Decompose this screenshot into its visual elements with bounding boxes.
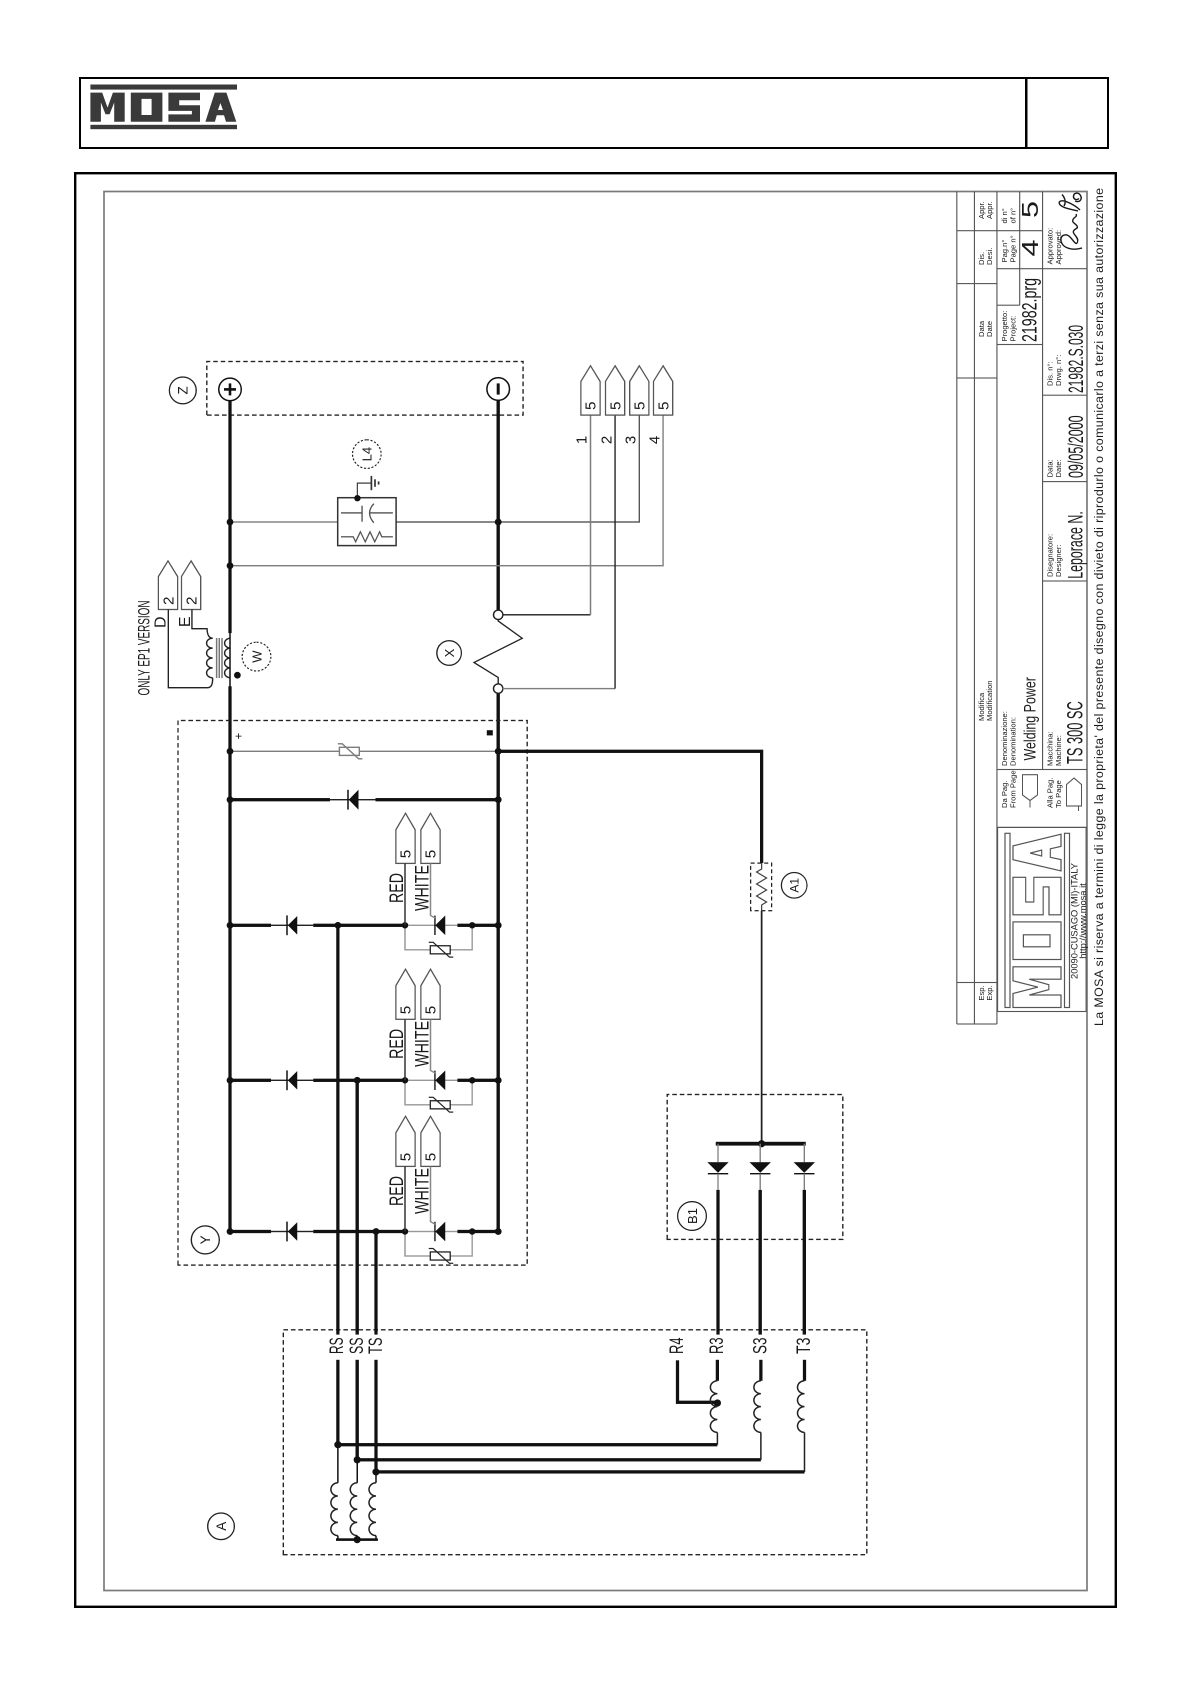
L4 filter vertical wire upper (230, 521, 338, 523)
svg-text:WHITE: WHITE (412, 865, 433, 911)
svg-text:T3: T3 (794, 1338, 815, 1355)
rectifier B1 dashed box (667, 1095, 843, 1240)
svg-text:RS: RS (327, 1338, 348, 1355)
label circle A1 (781, 873, 807, 899)
svg-text:A1: A1 (787, 878, 801, 893)
B1 common bar (715, 1142, 805, 1146)
svg-text:3: 3 (622, 436, 639, 444)
junction dot on - bus at L4 (494, 519, 501, 526)
svg-text:Exp.: Exp. (985, 985, 994, 1000)
svg-text:5: 5 (397, 1153, 414, 1161)
wire T3 from B1 (802, 1190, 805, 1335)
diode (cathode up) (286, 1222, 288, 1242)
svg-text:1: 1 (573, 436, 590, 444)
polarity dot (234, 672, 241, 679)
svg-text:5: 5 (607, 402, 624, 410)
svg-text:Macchina:: Macchina: (1045, 731, 1054, 766)
Approvato cell (1045, 228, 1062, 265)
svg-text:5: 5 (397, 850, 414, 858)
svg-text:R4: R4 (667, 1337, 688, 1354)
svg-text:Desi.: Desi. (985, 248, 994, 265)
svg-text:Approved:: Approved: (1054, 230, 1063, 265)
svg-text:Page n°: Page n° (1008, 235, 1017, 262)
wire D to transformer primary left end (168, 610, 212, 688)
svg-text:La MOSA si riserva a termini d: La MOSA si riserva a termini di legge la… (1092, 188, 1106, 1026)
signature (1059, 193, 1082, 249)
L4 filter vertical wire lower (to flag 3 corner) (396, 415, 639, 522)
diode (cathode up) (286, 915, 288, 935)
label circle A (207, 1513, 234, 1540)
MOSA logo cell (997, 827, 1086, 1011)
svg-text:Progetto:: Progetto: (1000, 311, 1009, 342)
flag 3 (to page 5) (629, 366, 648, 415)
wire X top to flag 1 (502, 614, 590, 616)
terminal + (positive output) (218, 378, 241, 401)
svg-text:Dis.: Dis. (976, 252, 985, 265)
svg-text:Project:: Project: (1008, 316, 1017, 342)
svg-text:Alla Pag.: Alla Pag. (1045, 778, 1054, 808)
wire: + bus thick (from + terminal to transformer) (228, 401, 231, 634)
wire SS from row B (355, 1080, 358, 1334)
svg-text:5: 5 (422, 1153, 439, 1161)
title block cell lines (996, 192, 1086, 828)
label circle W (242, 642, 271, 671)
MOSA logo (filled) (90, 85, 237, 130)
wire A1 to B1 bar (760, 911, 762, 1144)
field winding TS (375, 1472, 377, 1483)
wire to ground from L4 box (357, 483, 371, 498)
wire: + bus thin segment through transformer secondary (229, 631, 231, 688)
stator winding S3 (753, 1381, 760, 1433)
svg-text:Appr.: Appr. (985, 201, 994, 219)
field winding RS (336, 1445, 338, 1483)
wire WHITE gate (430, 1166, 435, 1224)
SCR (433, 1071, 435, 1090)
svg-text:Welding Power: Welding Power (1020, 677, 1039, 761)
SCR (433, 916, 435, 935)
filter L4 box (337, 498, 395, 546)
Da Pag cell (1000, 770, 1063, 808)
phase branch line x=376.5 (230, 1230, 271, 1233)
flag WHITE (to page 5) (420, 969, 439, 1019)
phase branch line x=527.7 (230, 1079, 271, 1082)
svg-text:B1: B1 (684, 1208, 699, 1224)
svg-text:Machine:: Machine: (1054, 735, 1063, 766)
Data cell (1045, 459, 1062, 477)
from-page flag (1022, 775, 1037, 808)
svg-text:21982.prg: 21982.prg (1018, 278, 1041, 342)
wire WHITE gate (430, 863, 435, 918)
generator A dashed box (283, 1330, 867, 1555)
junction dot row A takeoff (334, 922, 341, 929)
wire: W sense line (from + bus down to flag 4) (230, 415, 663, 566)
svg-text:4: 4 (646, 436, 663, 444)
label circle L4 (352, 440, 381, 469)
wire SS down to S3 coil (357, 1458, 761, 1461)
wire RS from row A (336, 925, 339, 1334)
svg-text:E: E (177, 617, 194, 628)
outer frame (75, 173, 1116, 1607)
junction dot on + bus at L4 (226, 519, 233, 526)
stator winding T3 (797, 1381, 804, 1433)
svg-text:4: 4 (1017, 239, 1043, 256)
label circle X (436, 641, 461, 666)
svg-text:Disegnatore:: Disegnatore: (1045, 534, 1054, 577)
stator winding R3 (710, 1381, 717, 1433)
phase branch line x=682.7 (230, 924, 271, 927)
svg-text:WHITE: WHITE (412, 1021, 433, 1067)
transformer core (216, 638, 221, 678)
svg-text:2: 2 (598, 436, 615, 444)
svg-text:From Page: From Page (1008, 770, 1017, 808)
svg-text:Modifica: Modifica (976, 692, 985, 721)
svg-text:Modification: Modification (985, 680, 994, 721)
Disegnatore cell (1045, 534, 1062, 577)
svg-text:Leporace N.: Leporace N. (1064, 511, 1087, 579)
svg-text:5: 5 (397, 1006, 414, 1014)
svg-text:Approvato:: Approvato: (1045, 228, 1054, 265)
flag RED (to page 5) (395, 969, 414, 1019)
revision table lines (956, 192, 1042, 1025)
svg-text:To Page: To Page (1054, 780, 1063, 808)
flag WHITE (to page 5) (420, 813, 439, 863)
resistor inside L4 (vertical zigzag) (341, 532, 393, 542)
diode (cathode up) (286, 1070, 288, 1090)
svg-text:Appr.: Appr. (976, 201, 985, 219)
svg-text:WHITE: WHITE (412, 1168, 433, 1214)
wire S3 from B1 (758, 1190, 761, 1335)
node Z terminal group dashed box (206, 362, 522, 416)
wire WHITE gate (430, 1019, 435, 1073)
Denominazione cell (1000, 711, 1063, 766)
flag WHITE (to page 5) (420, 1116, 439, 1166)
Pag / di cells (1000, 208, 1017, 263)
varistor symbol (337, 744, 362, 759)
svg-text:Esp.: Esp. (976, 985, 985, 1000)
snubber (405, 925, 430, 950)
svg-text:+: + (233, 733, 245, 740)
label circle Z (169, 377, 196, 404)
star point bar (336, 1538, 378, 1541)
B1 diode 3 (793, 1144, 814, 1190)
wire E to transformer primary right end (191, 610, 212, 639)
capacitor inside L4 (341, 504, 393, 523)
svg-text:Drwg. n°:: Drwg. n°: (1054, 355, 1063, 386)
snubber (405, 1232, 430, 1257)
svg-text:R3: R3 (706, 1338, 727, 1355)
svg-text:L4: L4 (359, 447, 374, 461)
header band with MOSA logo (79, 77, 1109, 149)
svg-text:Pag.n°: Pag.n° (1000, 240, 1009, 263)
SCR (433, 1222, 435, 1241)
svg-text:TS: TS (365, 1338, 386, 1355)
wire: + bus thick (transformer to Y row C) (228, 686, 231, 1231)
svg-text:Da Pag.: Da Pag. (1000, 781, 1009, 808)
svg-text:Denominazione:: Denominazione: (1000, 711, 1009, 766)
flag D (to page 2) (158, 561, 177, 610)
svg-text:SS: SS (347, 1338, 368, 1355)
rectifier bridge Y dashed box (178, 721, 527, 1266)
svg-text:09/05/2000: 09/05/2000 (1064, 415, 1087, 478)
svg-text:of n°: of n° (1008, 208, 1017, 224)
transformer W primary winding (206, 638, 212, 678)
wire: - bus thick (X bottom circle to Y row C) (496, 693, 499, 1231)
svg-text:5: 5 (422, 850, 439, 858)
Dis. n cell (1045, 355, 1062, 386)
flag E (to page 2) (181, 561, 200, 610)
svg-text:Designer:: Designer: (1054, 545, 1063, 578)
rotated landscape drawing (74, 172, 1117, 1608)
svg-text:Dis. n°:: Dis. n°: (1045, 361, 1054, 386)
wire TS down to T3 coil (376, 1470, 805, 1473)
resistor A1 dashed box (750, 863, 771, 911)
wire: - bus thick (from - terminal to X top circle) (496, 400, 499, 610)
svg-text:S3: S3 (750, 1338, 771, 1355)
svg-text:5: 5 (631, 402, 648, 410)
svg-text:5: 5 (422, 1006, 439, 1014)
transformer W secondary winding (224, 638, 230, 678)
wire R3 from B1 (716, 1190, 719, 1335)
B1 diode 1 (707, 1144, 728, 1190)
label circle Y (191, 1226, 219, 1254)
svg-text:21982.S.030: 21982.S.030 (1064, 325, 1087, 393)
svg-text:Data: Data (976, 320, 985, 337)
flag 4 (to page 5) (653, 366, 672, 415)
svg-text:W: W (249, 650, 264, 663)
svg-text:http://www.mosa.it: http://www.mosa.it (1078, 883, 1088, 959)
svg-text:Z: Z (175, 386, 190, 394)
snubber (405, 1080, 430, 1105)
svg-text:Date:: Date: (1054, 459, 1063, 477)
svg-text:X: X (441, 648, 456, 657)
svg-text:2: 2 (160, 597, 177, 605)
svg-text:A: A (213, 1522, 228, 1531)
terminal - (negative output) (486, 378, 509, 401)
svg-text:TS 300 SC: TS 300 SC (1062, 701, 1087, 764)
flag 1 (to page 5) (580, 366, 599, 415)
flag 2 (to page 5) (605, 366, 624, 415)
svg-text:5: 5 (582, 402, 599, 410)
svg-text:5: 5 (655, 402, 672, 410)
field winding SS (356, 1460, 358, 1483)
wire RED (404, 1166, 406, 1231)
svg-text:Data:: Data: (1045, 459, 1054, 477)
svg-text:di n°: di n° (1000, 208, 1009, 223)
wire R4 tap (677, 1360, 717, 1402)
wire RS down to R3 coil (337, 1443, 717, 1446)
to-page flag (1066, 778, 1081, 811)
svg-text:5: 5 (1017, 201, 1043, 218)
freewheel diode branch (230, 798, 330, 801)
shunt X (474, 610, 522, 693)
inner frame (104, 192, 1087, 1591)
wire: + bus to A1 (thick L) (498, 751, 761, 863)
ground (371, 476, 378, 490)
resistor A1 zigzag (756, 863, 766, 911)
svg-text:Denomination:: Denomination: (1008, 717, 1017, 766)
B1 diode 2 (749, 1144, 770, 1190)
svg-text:2: 2 (183, 597, 200, 605)
varistor branch (gray) across buses (230, 750, 339, 752)
svg-text:Date: Date (985, 321, 994, 337)
Progetto cell (1000, 311, 1017, 342)
svg-text:Y: Y (198, 1235, 213, 1244)
wire X bottom to flag 2 (502, 688, 614, 690)
wire RED (404, 863, 406, 925)
flag RED (to page 5) (395, 1116, 414, 1166)
label circle B1 (677, 1202, 706, 1231)
svg-text:ONLY EP1 VERSION: ONLY EP1 VERSION (134, 601, 153, 696)
flag RED (to page 5) (395, 813, 414, 863)
header labels (976, 201, 993, 1000)
wire RED (404, 1019, 406, 1080)
wire TS from row C (374, 1232, 377, 1335)
svg-text:D: D (152, 617, 169, 629)
